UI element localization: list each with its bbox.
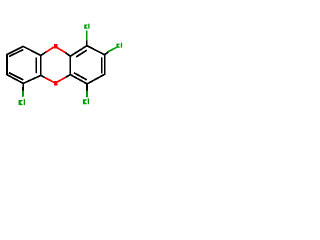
C-Cl bond green half at L4 (22, 91, 24, 96)
C-O bond black half R1 side (65, 52, 70, 56)
wire bond L5-L6 (40, 55, 42, 75)
wire bond R3-R4 (104, 55, 106, 75)
inner double bond R5-R6 (75, 73, 87, 79)
wire bond L1-L2 (7, 46, 23, 54)
wire bond R4-R5 (87, 74, 105, 84)
C-O bond black half L5 side (41, 75, 46, 78)
inner double bond L2-L1 (10, 50, 23, 56)
oxygen O bottom (red square label) (54, 81, 58, 86)
wire bond R6-R1 (69, 56, 71, 74)
inner double bond R1-R2 (77, 51, 87, 57)
wire bond L3-L4 (7, 75, 23, 84)
C-Cl bond green half at R5 (86, 91, 88, 97)
wire bond R1-R2 (70, 46, 87, 57)
C-O bond black half L6 side (41, 52, 47, 56)
oxygen O top (red square label) (54, 44, 58, 49)
C-O bond red half from top O right (58, 48, 65, 52)
C-Cl bond green half at R2 (86, 31, 88, 40)
C-O bond red half from bottom O right (57, 78, 65, 82)
C-Cl bond black half at R2 (86, 40, 88, 46)
C-Cl bond black half at L4 (22, 83, 24, 91)
C-Cl bond green half at R3 (109, 48, 116, 52)
inner double bond L5-L6 (35, 58, 37, 72)
C-O bond black half R6 side (65, 75, 70, 78)
label Cl bottom (on R5) (83, 98, 89, 104)
wire bond R5-R6 (70, 75, 87, 84)
wire bond L4-L5 (23, 75, 41, 83)
label Cl top-right (on R3) (116, 43, 122, 48)
label Cl top (on R2) (84, 24, 89, 29)
wire bond L6-L1 (23, 46, 41, 55)
wire bond R2-R3 (87, 46, 105, 55)
C-Cl bond black half at R3 (105, 51, 109, 54)
chemical structure: tetrachlorodibenzo-p-dioxin (0, 0, 130, 130)
label Cl bottom-left (on L4) (19, 99, 25, 105)
wire bond L2-L3 (6, 55, 8, 75)
inner double bond R3-R4 (101, 58, 103, 73)
inner double bond L3-L4 (10, 73, 23, 80)
C-O bond red half to bottom O left (45, 78, 53, 82)
C-O bond red half to top O left (47, 47, 54, 52)
C-Cl bond black half at R5 (86, 84, 88, 92)
